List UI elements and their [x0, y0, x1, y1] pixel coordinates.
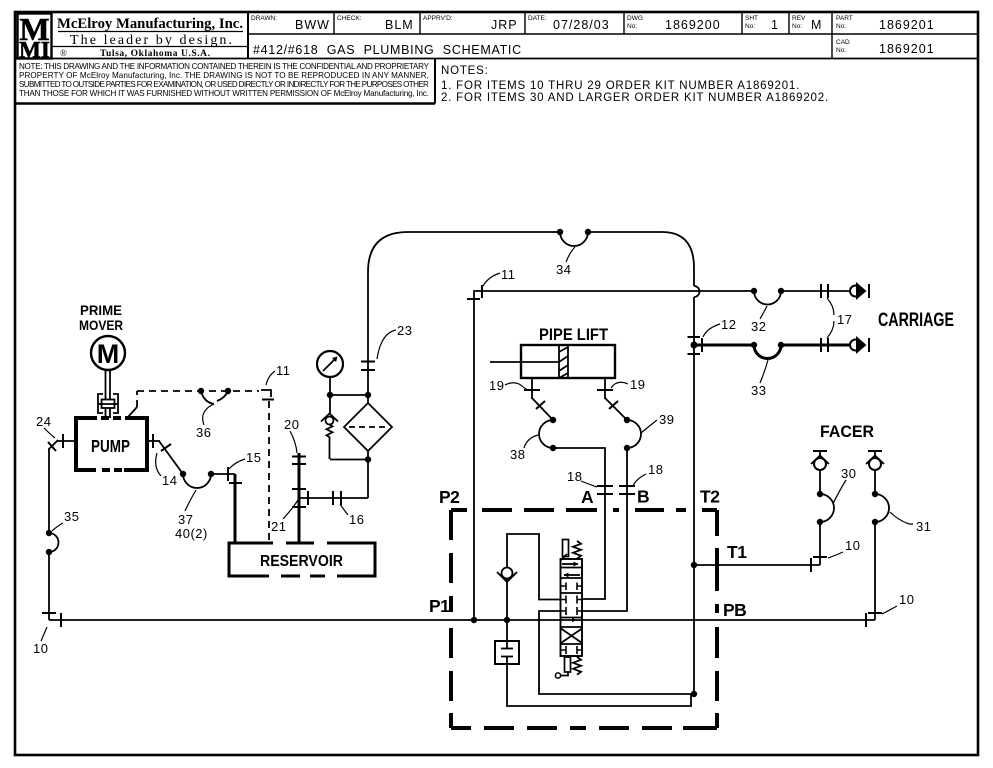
piston rod [490, 361, 559, 363]
svg-text:1. FOR ITEMS 10 THRU 29: 1. FOR ITEMS 10 THRU 29 ORDER KIT NUMBER… [441, 80, 800, 92]
svg-text:The leader by design.: The leader by design. [70, 33, 232, 48]
svg-text:No:: No: [745, 23, 755, 30]
svg-text:1869201: 1869201 [879, 42, 935, 56]
svg-text:THAN THOSE FOR WHICH IT WAS FU: THAN THOSE FOR WHICH IT WAS FURNISHED WI… [19, 89, 429, 98]
svg-text:19: 19 [489, 378, 504, 393]
manifold dashed enclosure top [451, 510, 717, 728]
fitting 11 bulkhead left [261, 390, 274, 400]
fitting 10 left [42, 612, 56, 614]
svg-text:PUMP: PUMP [91, 436, 130, 456]
svg-text:1869200: 1869200 [665, 18, 721, 32]
manifold dashed enclosure bottom [451, 726, 717, 730]
blocked port tees [561, 583, 583, 655]
svg-text:CARRIAGE: CARRIAGE [878, 310, 954, 331]
svg-text:REV: REV [792, 15, 806, 22]
svg-text:M: M [97, 339, 120, 369]
svg-text:12: 12 [721, 317, 736, 332]
svg-text:PB: PB [723, 600, 746, 620]
svg-text:#412/#618 GAS PLUMBING SCHE: #412/#618 GAS PLUMBING SCHEMATIC [253, 43, 522, 57]
svg-text:NOTES:: NOTES: [441, 65, 489, 77]
svg-text:APPRV'D:: APPRV'D: [423, 15, 453, 22]
svg-text:11: 11 [501, 267, 516, 282]
McElroy logo MMI [18, 11, 52, 63]
crossover 35 [46, 530, 52, 536]
svg-text:2. FOR ITEMS 30 AND LARGE: 2. FOR ITEMS 30 AND LARGER ORDER KIT NUM… [441, 92, 829, 104]
fitting 15 [227, 467, 229, 481]
svg-text:DRAWN:: DRAWN: [251, 15, 277, 22]
svg-text:McElroy Manufacturing, Inc.: McElroy Manufacturing, Inc. [57, 16, 243, 32]
svg-text:20: 20 [284, 417, 299, 432]
filter F1 [344, 395, 392, 498]
svg-text:PART: PART [836, 15, 853, 22]
svg-text:No:: No: [836, 23, 846, 30]
detent pin [565, 657, 571, 672]
crossover 32 [751, 288, 757, 294]
wire filter return 16 [299, 491, 368, 505]
crossover 30 [817, 491, 823, 497]
wire T2 drop [693, 345, 695, 694]
svg-text:23: 23 [397, 323, 412, 338]
svg-text:19: 19 [630, 377, 645, 392]
fitting 19 left [524, 389, 540, 391]
svg-text:DWG: DWG [627, 15, 643, 22]
fitting 18 left [597, 485, 613, 487]
case drain dashed wire [128, 407, 137, 417]
company name [52, 16, 248, 59]
svg-text:38: 38 [510, 447, 525, 462]
svg-text:18: 18 [567, 469, 582, 484]
relief valve RV [495, 620, 691, 706]
svg-text:MI: MI [19, 38, 50, 63]
svg-text:No:: No: [792, 23, 802, 30]
svg-text:BWW: BWW [295, 18, 330, 32]
svg-text:Tulsa, Oklahoma U.S.A.: Tulsa, Oklahoma U.S.A. [100, 49, 210, 59]
wire pump suction [42, 434, 76, 627]
svg-text:CAD: CAD [836, 39, 850, 46]
svg-text:PROPERTY OF McElroy Manufactur: PROPERTY OF McElroy Manufacturing, Inc. … [19, 71, 429, 80]
svg-text:10: 10 [899, 592, 914, 607]
svg-text:SHT: SHT [745, 15, 758, 22]
pipe lift cylinder [490, 345, 615, 378]
wire T1 [694, 564, 820, 566]
spring [327, 425, 333, 460]
facer right leg [866, 451, 889, 627]
svg-text:1: 1 [771, 18, 779, 32]
wire tank return internal [539, 611, 694, 694]
facer left leg [694, 451, 834, 572]
svg-text:M: M [811, 18, 822, 32]
wire pump discharge [147, 434, 242, 543]
svg-text:BLM: BLM [385, 18, 414, 32]
svg-text:39: 39 [659, 412, 674, 427]
svg-text:17: 17 [837, 312, 852, 327]
svg-text:No:: No: [836, 47, 846, 54]
wire hop over carriage line [694, 286, 700, 297]
crossover 39 [624, 417, 630, 423]
wire filter to hose [361, 272, 375, 395]
fitting 12 tee [691, 342, 698, 349]
manifold dashed enclosure right [715, 510, 719, 728]
fitting 17 ticks bottom [820, 338, 822, 352]
svg-text:10: 10 [33, 641, 48, 656]
pump P [76, 418, 147, 470]
fitting 23 [361, 361, 375, 363]
svg-text:PRIME: PRIME [80, 302, 122, 318]
wire carriage supply top [471, 282, 869, 623]
lever handle [563, 540, 569, 557]
wire bottom long line P1-PB [49, 619, 875, 621]
crossover 31 [872, 491, 878, 497]
quick disconnect facer right [868, 450, 882, 452]
svg-text:FACER: FACER [820, 422, 874, 441]
svg-text:21: 21 [271, 519, 286, 534]
svg-text:34: 34 [556, 262, 571, 277]
svg-text:35: 35 [64, 509, 79, 524]
fitting 24 [62, 434, 64, 448]
big labels [79, 302, 954, 620]
svg-text:T1: T1 [727, 542, 747, 562]
fitting 14 [152, 434, 154, 448]
fitting 10 PB [868, 612, 882, 614]
svg-text:PIPE LIFT: PIPE LIFT [539, 326, 608, 344]
svg-text:B: B [637, 487, 650, 507]
wire check valve branch [497, 534, 560, 623]
fitting 18 right [619, 485, 635, 487]
hose 34 [368, 229, 700, 345]
coupling [98, 394, 118, 413]
svg-text:37: 37 [178, 512, 193, 527]
svg-text:®: ® [60, 48, 67, 58]
wire cylinder port B side [582, 378, 641, 611]
node gauge tee [327, 392, 333, 398]
wire reservoir breather line 20/21 [292, 453, 308, 543]
svg-text:NOTE: THIS DRAWING AND THE IN: NOTE: THIS DRAWING AND THE INFORMATION C… [19, 62, 430, 71]
fitting 17 ticks top [820, 284, 822, 298]
svg-text:SUBMITTED TO OUTSIDE PARTIES F: SUBMITTED TO OUTSIDE PARTIES FOR EXAMINA… [19, 80, 429, 89]
svg-text:31: 31 [916, 519, 931, 534]
svg-text:CHECK:: CHECK: [337, 15, 362, 22]
wire carriage return bottom [688, 336, 870, 359]
quick disconnect carriage bottom [850, 340, 861, 351]
svg-text:32: 32 [751, 319, 766, 334]
reservoir tank [229, 543, 375, 576]
svg-text:40(2): 40(2) [175, 526, 208, 541]
svg-text:RESERVOIR: RESERVOIR [260, 553, 343, 570]
title block fields [251, 15, 935, 57]
manifold dashed enclosure left [449, 510, 453, 728]
crossover 33 [751, 342, 757, 348]
svg-text:DATE:: DATE: [528, 15, 547, 22]
title block grid [15, 13, 978, 59]
svg-text:24: 24 [36, 414, 51, 429]
notes text [441, 65, 829, 104]
svg-text:11: 11 [276, 363, 291, 378]
quick disconnect carriage top [850, 286, 861, 297]
check valve CV [502, 568, 513, 579]
crossover 37 40(2) [180, 471, 186, 477]
fitting 20 [292, 456, 306, 458]
svg-text:15: 15 [246, 450, 261, 465]
spool arrows [562, 563, 578, 565]
fitting 10 T1 [813, 556, 827, 558]
wire cylinder port A side [524, 378, 613, 599]
directional valve DV body [555, 540, 582, 679]
svg-text:16: 16 [349, 512, 364, 527]
svg-text:JRP: JRP [491, 18, 518, 32]
svg-text:14: 14 [162, 473, 177, 488]
svg-text:1869201: 1869201 [879, 18, 935, 32]
quick disconnect facer left [813, 450, 827, 452]
fitting 11 bulkhead right [467, 285, 482, 299]
svg-text:07/28/03: 07/28/03 [553, 18, 610, 32]
spring top [573, 541, 581, 559]
pressure gauge [317, 351, 343, 395]
svg-text:P2: P2 [439, 487, 460, 507]
svg-text:P1: P1 [429, 596, 450, 616]
fitting 21 [292, 488, 306, 490]
bypass check valve [321, 395, 368, 460]
svg-text:33: 33 [751, 383, 766, 398]
labels with leaders [33, 247, 931, 656]
svg-text:T2: T2 [700, 487, 720, 507]
svg-text:No:: No: [627, 23, 637, 30]
svg-text:A: A [581, 487, 594, 507]
shaft [106, 370, 111, 418]
motor M prime mover [91, 336, 125, 370]
spring bottom [573, 657, 581, 675]
svg-text:30: 30 [841, 466, 856, 481]
fitting 16 [332, 491, 334, 505]
confidential note box [15, 59, 435, 104]
svg-text:MOVER: MOVER [79, 317, 123, 333]
svg-text:10: 10 [845, 538, 860, 553]
svg-text:36: 36 [196, 425, 211, 440]
crossover 36 [198, 388, 231, 404]
svg-text:18: 18 [648, 462, 663, 477]
crossover 38 [550, 417, 556, 423]
crossed arrows [561, 629, 582, 644]
fitting 19 right [597, 389, 613, 391]
